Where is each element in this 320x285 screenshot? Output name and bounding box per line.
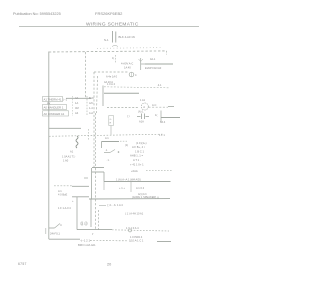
label box third: [43, 111, 69, 116]
tick from left y178: [84, 177, 88, 179]
svg-text:A1A: A1A: [139, 120, 144, 124]
svg-text:N-1: N-1: [104, 38, 109, 42]
svg-text:A0 10NDLER A1: A0 10NDLER A1: [44, 112, 65, 116]
svg-text:1|10 A-1 C 1: 1|10 A-1 C 1: [129, 239, 144, 243]
wire: dashed vertical x97.5 upper: [97, 76, 98, 113]
switch arm: [104, 152, 110, 154]
header rule: [19, 26, 199, 28]
left lower rail y185.8: [54, 185, 72, 187]
connector J1 top center: [112, 31, 114, 43]
rail y181.5: [104, 181, 171, 183]
svg-text:A F B+, 4 i: A F B+, 4 i: [132, 145, 145, 149]
svg-text:1 (A) A--A 1 (WA A/D): 1 (A) A--A 1 (WA A/D): [116, 178, 141, 182]
wire: top dashed horizontal: [49, 51, 167, 52]
svg-text:A 1 0 4: A 1 0 4: [136, 186, 145, 190]
svg-text:1 0 PWA 4: 1 0 PWA 4: [130, 235, 143, 239]
label row above top dashed line: [97, 47, 163, 50]
tick x158 on y199: [157, 197, 159, 200]
ground stub and marks: [49, 227, 55, 229]
svg-text:A 1: A 1: [58, 189, 62, 193]
svg-text:6757: 6757: [18, 262, 27, 266]
vertical dashed x98.5: [98, 210, 100, 230]
vertical x131 below rail: [130, 182, 132, 193]
wire: solid vertical x103: [102, 86, 104, 107]
svg-text:+0AA: +0AA: [131, 169, 138, 173]
solid right y240: [157, 241, 171, 243]
rail y229.6: [77, 229, 112, 231]
dashed y240.5: [90, 240, 128, 242]
svg-text:1 0A A1 T1 ·: 1 0A A1 T1 ·: [62, 155, 76, 159]
wire: solid y98.5 left of x103: [66, 97, 91, 99]
evap fan wire: [145, 63, 173, 65]
evap fan vertical: [140, 58, 142, 70]
wire: dashed vertical x85.5: [85, 52, 87, 98]
svg-text:WIRING SCHEMATIC: WIRING SCHEMATIC: [86, 22, 139, 28]
label box A/C THERM: [43, 97, 63, 102]
svg-text:( ) 1 · A: 1 A 4: ( ) 1 · A: 1 A 4: [107, 203, 123, 207]
left lower rail y196.8: [72, 196, 89, 198]
wire: dashed horizontal y72: [94, 71, 128, 73]
svg-text:A 1: A 1: [105, 136, 109, 140]
svg-text:(1 F)(1+): (1 F)(1+): [136, 141, 147, 145]
svg-text:1 A0: 1 A0: [63, 159, 69, 163]
svg-text:· 1 ·: · 1 ·: [106, 159, 110, 162]
separator dashes x87: [86, 96, 88, 116]
wire: dashed drop at right end of top line: [166, 51, 168, 55]
svg-text:4-A0V A-C: 4-A0V A-C: [121, 62, 133, 66]
svg-text:·1·: ·1·: [105, 149, 108, 152]
wire: solid y93.3: [104, 92, 139, 94]
svg-text:FRS26KF6EB2: FRS26KF6EB2: [95, 11, 123, 16]
svg-text:A(1) 1/4: A(1) 1/4: [138, 193, 147, 196]
compressor dashed feed: [107, 107, 138, 109]
dashes right of rail: [120, 140, 127, 142]
left rail y128.3: [49, 127, 81, 129]
rail y172: [92, 171, 104, 173]
svg-text:1A: 1A: [75, 101, 78, 105]
vertical x91 lower: [90, 199, 92, 227]
svg-text:20: 20: [107, 263, 111, 267]
svg-text:AHB 1, 1 =: AHB 1, 1 =: [130, 154, 144, 158]
wire: dashed horizontal y86.5: [104, 87, 169, 88]
svg-text:A4: A4: [75, 111, 79, 115]
svg-text:1(: 1(: [155, 113, 157, 117]
svg-text:( 1 ) A 4H 10 A1: ( 1 ) A 4H 10 A1: [125, 212, 144, 216]
vertical x77: [76, 197, 78, 230]
svg-text:1(: 1(: [112, 57, 114, 60]
vertical x91.5 solid: [91, 168, 93, 199]
svg-text:4A-1: 4A-1: [150, 58, 156, 61]
svg-text:4-A: 4-A: [89, 111, 93, 115]
svg-text:1 V 1 0 A 4: 1 V 1 0 A 4: [126, 226, 139, 230]
svg-text:BLK 4-A0 1N: BLK 4-A0 1N: [119, 35, 135, 39]
wire right y105.5: [168, 106, 174, 108]
svg-text:(1): (1): [125, 143, 128, 147]
svg-text:1 F 1 A-0 4: 1 F 1 A-0 4: [58, 206, 71, 210]
long rail y199: [89, 198, 170, 200]
svg-text:BRN 1 A/A 4A1: BRN 1 A/A 4A1: [78, 243, 96, 247]
wire: dashed vertical x94: [93, 72, 95, 168]
vertical dashed x95.5: [95, 168, 97, 230]
wire dashes after motor: [149, 106, 169, 108]
svg-text:4 0 BoE: 4 0 BoE: [58, 193, 67, 197]
overload vertical: [160, 111, 162, 123]
ground rail y239.2: [49, 238, 80, 240]
svg-text:A.C: A.C: [152, 103, 156, 107]
svg-text:24A*0,1: 24A*0,1: [50, 232, 60, 236]
rail y167.5 short: [92, 167, 104, 169]
svg-text:EVAP FAN A0: EVAP FAN A0: [145, 66, 162, 70]
svg-text:1 0 A 4: 1 0 A 4: [107, 82, 115, 86]
dashed stub x115.5: [115, 55, 117, 63]
vertical x104 lower: [103, 182, 105, 191]
svg-text:1 A1: 1 A1: [140, 99, 146, 102]
stub right y205.5: [99, 205, 106, 207]
svg-text:Publication No: 5995543225: Publication No: 5995543225: [13, 12, 61, 16]
svg-text:|–1: |–1: [64, 98, 68, 102]
svg-text:G: G: [110, 119, 112, 121]
svg-text:( ): ( ): [127, 114, 130, 118]
svg-text:A0 HANDLER 1: A0 HANDLER 1: [44, 106, 64, 110]
svg-text:A T 1 ·: A T 1 ·: [133, 158, 141, 162]
dashes x88.5 short: [88, 129, 90, 141]
component cluster right of y72 line: [129, 72, 134, 77]
svg-text:1 B C 1: 1 B C 1: [135, 149, 144, 153]
svg-text:A1 THERM 41: A1 THERM 41: [44, 98, 62, 102]
label box AIR HANDLER: [43, 105, 67, 110]
svg-text:1 1 1: 1 1 1: [159, 133, 165, 137]
compressor motor circle: [141, 103, 148, 110]
svg-text:A 4e 1A 0: A 4e 1A 0: [106, 75, 118, 79]
svg-text:+ 41 1 0+ 1: + 41 1 0+ 1: [130, 163, 144, 167]
svg-text:(A) 1: (A) 1: [138, 110, 144, 114]
overload wire: [161, 117, 180, 119]
svg-text:4A: 4A: [75, 96, 78, 100]
defrost vertical stub: [101, 142, 103, 149]
svg-text:A: A: [143, 105, 145, 109]
svg-text:A/C: A/C: [89, 101, 93, 105]
GRN vertical label box: [109, 116, 114, 126]
switch contact dot: [118, 151, 120, 153]
svg-text:0A 4: 0A 4: [160, 120, 166, 124]
svg-text:C1 1 3: C1 1 3: [80, 222, 88, 226]
svg-text:BLK: BLK: [89, 96, 94, 100]
svg-text:A1: A1: [70, 150, 74, 154]
run capacitor symbol: [137, 116, 141, 118]
svg-text:·4·1: ·4·1: [157, 84, 162, 87]
long dotted line y136: [49, 134, 163, 136]
vertical dashed x95.5 upper segment: [95, 113, 97, 168]
heater squiggle: [76, 136, 78, 148]
step vertical x104: [103, 172, 105, 182]
separator dashes x73: [72, 96, 74, 116]
svg-text:+ 1 +: + 1 +: [119, 186, 125, 190]
small tick left of bus: [45, 228, 47, 234]
svg-text:1-4: 1-4: [89, 106, 93, 110]
svg-text:4M: 4M: [75, 106, 79, 110]
wire: left bus vertical: [48, 52, 50, 240]
dotted continuation y230.5: [112, 230, 169, 231]
svg-text:1A 40: 1A 40: [124, 66, 131, 70]
defrost rail y141.5: [102, 141, 120, 143]
